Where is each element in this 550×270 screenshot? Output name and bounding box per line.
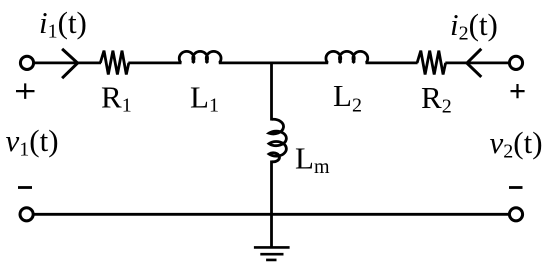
wire center vertical lower	[270, 161, 273, 248]
resistor R2	[417, 51, 446, 75]
terminal bottom-left	[20, 208, 33, 221]
wire R1 to L1	[128, 62, 181, 65]
inductor L2	[326, 51, 368, 63]
wire top-left segment	[35, 62, 101, 65]
svg-text:i2(t): i2(t)	[450, 7, 498, 45]
terminal top-left	[20, 56, 33, 69]
wire L1 to node to L2	[219, 62, 328, 65]
wire R2 to top-right terminal	[445, 62, 508, 65]
wire bottom	[34, 213, 509, 216]
arrow i1	[62, 49, 78, 78]
svg-text:v1(t): v1(t)	[6, 123, 59, 161]
plus sign left	[16, 83, 35, 99]
arrow i2	[467, 49, 481, 77]
svg-text:L2: L2	[333, 78, 362, 117]
svg-text:Lm: Lm	[295, 141, 330, 179]
inductor Lm	[269, 119, 286, 161]
minus sign right	[509, 186, 523, 189]
svg-text:i1(t): i1(t)	[39, 5, 87, 43]
ground	[254, 247, 290, 260]
wire L2 to R2	[366, 62, 418, 65]
minus sign left	[18, 186, 32, 189]
svg-text:v2(t): v2(t)	[490, 125, 543, 163]
terminal top-right	[509, 56, 522, 69]
inductor L1	[179, 51, 221, 63]
svg-text:R1: R1	[101, 80, 132, 117]
terminal bottom-right	[509, 208, 522, 221]
wire center vertical upper	[270, 63, 273, 121]
svg-text:R2: R2	[421, 80, 452, 117]
resistor R1	[100, 51, 129, 75]
svg-text:L1: L1	[190, 80, 219, 117]
plus sign right	[511, 84, 525, 98]
